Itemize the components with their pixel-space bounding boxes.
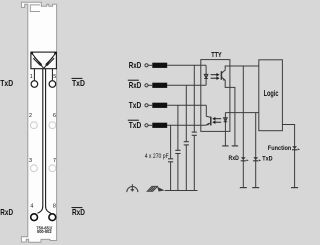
svg-text:RxD: RxD bbox=[229, 155, 239, 162]
svg-text:TxD: TxD bbox=[0, 78, 13, 88]
svg-text:RxD: RxD bbox=[129, 60, 141, 70]
svg-text:TxD: TxD bbox=[129, 120, 141, 130]
svg-text:2: 2 bbox=[29, 113, 32, 119]
svg-text:TxD: TxD bbox=[262, 156, 272, 163]
svg-text:RxD: RxD bbox=[0, 207, 13, 217]
svg-text:RxD: RxD bbox=[129, 80, 141, 90]
svg-text:3: 3 bbox=[29, 158, 32, 164]
svg-text:TxD: TxD bbox=[129, 100, 141, 110]
svg-text:TTY: TTY bbox=[211, 50, 221, 59]
svg-text:RxD: RxD bbox=[72, 207, 85, 217]
svg-text:6: 6 bbox=[53, 113, 56, 119]
svg-text:Function: Function bbox=[268, 145, 292, 152]
svg-text:4 x 270 pF: 4 x 270 pF bbox=[145, 153, 169, 160]
svg-text:Logic: Logic bbox=[264, 89, 279, 98]
svg-text:TxD: TxD bbox=[72, 78, 85, 88]
svg-text:000-002: 000-002 bbox=[37, 229, 52, 234]
svg-text:5: 5 bbox=[53, 74, 56, 80]
svg-text:1: 1 bbox=[30, 74, 33, 80]
svg-text:7: 7 bbox=[53, 158, 56, 164]
svg-text:8: 8 bbox=[53, 204, 56, 210]
svg-text:4: 4 bbox=[30, 204, 33, 210]
